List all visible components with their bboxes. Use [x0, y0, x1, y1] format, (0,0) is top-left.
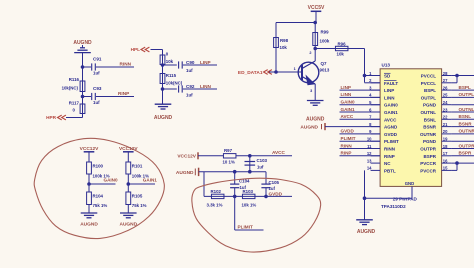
- wire emitter: [314, 84, 316, 100]
- svg-text:13: 13: [367, 158, 372, 163]
- wire: [235, 229, 264, 231]
- node: [248, 170, 252, 174]
- svg-text:BSPR: BSPR: [423, 154, 436, 159]
- wire net GAIN1: [340, 111, 381, 113]
- node: [455, 161, 459, 165]
- node junction2: [81, 95, 85, 99]
- svg-text:NC: NC: [384, 161, 391, 166]
- resistor R115: [160, 74, 165, 84]
- pin 27 PVCCL: [442, 82, 452, 84]
- svg-text:OUTNL: OUTNL: [459, 107, 474, 112]
- wire right: [451, 140, 474, 142]
- wire right: [451, 104, 474, 106]
- pin 12 RINP: [371, 155, 381, 157]
- wire to pin 1: [365, 75, 381, 77]
- pin 4 LINN: [371, 96, 381, 98]
- wire right: [451, 133, 474, 135]
- svg-text:RINP: RINP: [384, 154, 395, 159]
- wire: [127, 174, 129, 192]
- resistor R96 series: [335, 46, 348, 50]
- wire net PLIMIT: [340, 140, 381, 142]
- svg-text:BSNL: BSNL: [424, 117, 437, 122]
- pin 23 OUTNL: [442, 111, 452, 113]
- svg-text:GND: GND: [405, 181, 415, 186]
- svg-text:9013: 9013: [320, 67, 330, 72]
- svg-text:1uf: 1uf: [93, 100, 100, 105]
- svg-text:100k: 100k: [320, 38, 330, 43]
- wire: [314, 23, 316, 49]
- svg-text:AUGND: AUGND: [154, 115, 173, 121]
- wire right: [451, 96, 474, 98]
- wire pin15 to pin16: [451, 169, 457, 171]
- resistor R102: [211, 194, 224, 198]
- wire top rail: [276, 22, 315, 24]
- wire bottom gnd rail: [365, 197, 413, 199]
- svg-text:14: 14: [367, 166, 372, 171]
- svg-text:LINN: LINN: [341, 92, 352, 97]
- wire: [83, 96, 92, 98]
- wire net GAIN1: [128, 183, 155, 185]
- svg-text:PLIMIT: PLIMIT: [384, 139, 399, 144]
- svg-text:10k: 10k: [337, 51, 345, 56]
- svg-text:23: 23: [443, 107, 448, 112]
- node: [248, 154, 252, 158]
- svg-text:1uf: 1uf: [269, 186, 276, 191]
- wire net LINP: [340, 89, 381, 91]
- svg-text:BSPL: BSPL: [459, 85, 471, 90]
- wire: [275, 23, 277, 73]
- pin 7 AVCC: [371, 118, 381, 120]
- pin 6 GAIN1: [371, 111, 381, 113]
- svg-text:BSNR: BSNR: [459, 121, 473, 126]
- svg-text:1uf: 1uf: [93, 70, 100, 75]
- svg-text:AGND: AGND: [384, 125, 398, 130]
- capacitor C104: [234, 172, 236, 185]
- wire to pin 2: [365, 82, 381, 84]
- node to pin1: [363, 74, 367, 78]
- pin 19 PGND: [442, 140, 452, 142]
- svg-text:GAIN1: GAIN1: [384, 110, 398, 115]
- node: [313, 21, 317, 25]
- svg-text:OUTPL: OUTPL: [459, 92, 474, 97]
- node junction1: [81, 65, 85, 69]
- capacitor C92: [178, 85, 180, 92]
- svg-text:10k(NC): 10k(NC): [166, 80, 183, 85]
- ground AUGND: [81, 212, 98, 214]
- pin 24 PGND: [442, 104, 452, 106]
- svg-text:GVDD: GVDD: [341, 129, 355, 134]
- svg-text:10k: 10k: [166, 59, 174, 64]
- svg-text:Q7: Q7: [321, 61, 328, 66]
- svg-text:LINP: LINP: [341, 85, 351, 90]
- wire gnd rail: [199, 171, 266, 173]
- svg-text:26: 26: [443, 85, 448, 90]
- wire net GAIN0: [340, 104, 381, 106]
- svg-text:GAIN1: GAIN1: [143, 177, 157, 182]
- svg-text:1uf: 1uf: [186, 68, 193, 73]
- svg-text:PGND: PGND: [423, 139, 437, 144]
- svg-text:10 1%: 10 1%: [223, 160, 235, 165]
- svg-text:10k(NC): 10k(NC): [62, 85, 79, 90]
- pin 14 PBTL: [371, 169, 381, 171]
- svg-text:PVCCR: PVCCR: [420, 161, 437, 166]
- wire to net RINN: [96, 66, 134, 68]
- node base junction: [274, 70, 278, 74]
- svg-text:PGND: PGND: [423, 103, 437, 108]
- svg-text:R99: R99: [321, 29, 330, 34]
- transistor Q7 9013: [298, 61, 319, 85]
- svg-text:GAIN0: GAIN0: [104, 177, 118, 182]
- wire: [82, 53, 84, 118]
- wire: [127, 205, 129, 214]
- annotation circle left: [34, 138, 164, 238]
- wire net RINN: [340, 148, 381, 150]
- node junction: [161, 63, 165, 67]
- wire net GVDD: [340, 133, 381, 135]
- pin 21 BSNR: [442, 126, 452, 128]
- svg-text:AUGND: AUGND: [176, 170, 194, 176]
- capacitor C90: [178, 61, 180, 68]
- svg-text:RINN: RINN: [120, 62, 132, 67]
- svg-text:3.3k 1%: 3.3k 1%: [207, 203, 223, 208]
- wire right: [451, 155, 474, 157]
- svg-text:OUTNR: OUTNR: [459, 129, 474, 134]
- wire base: [269, 71, 302, 73]
- pin 28 PVCCL: [442, 75, 452, 77]
- svg-text:21: 21: [443, 122, 448, 127]
- resistor R105: [126, 192, 131, 205]
- svg-text:BSNR: BSNR: [423, 125, 437, 130]
- svg-text:BSPR: BSPR: [459, 151, 472, 156]
- svg-text:HPR: HPR: [46, 115, 57, 120]
- svg-text:22: 22: [443, 115, 448, 120]
- svg-text:AVCC: AVCC: [341, 114, 354, 119]
- svg-text:R105: R105: [132, 193, 143, 198]
- svg-text:10k 1%: 10k 1%: [242, 203, 257, 208]
- wire: [315, 48, 364, 50]
- svg-text:AVCC: AVCC: [384, 117, 397, 122]
- svg-text:RINN: RINN: [384, 147, 395, 152]
- ground AUGND (IC): [356, 219, 373, 221]
- svg-text:GAIN0: GAIN0: [384, 103, 398, 108]
- wire right: [451, 148, 474, 150]
- wire AGND: [325, 126, 380, 128]
- svg-text:U13: U13: [382, 62, 391, 67]
- resistor R99: [313, 33, 318, 46]
- svg-text:AUGND: AUGND: [300, 125, 318, 131]
- wire net RINP: [340, 155, 381, 157]
- wire net LINN: [340, 96, 381, 98]
- svg-text:RINN: RINN: [341, 143, 353, 148]
- svg-text:VCC12V: VCC12V: [177, 154, 196, 160]
- svg-text:SD: SD: [384, 74, 391, 79]
- node: [264, 195, 268, 199]
- svg-text:1uf: 1uf: [186, 92, 193, 97]
- svg-text:HPL: HPL: [131, 47, 141, 52]
- annotation circle right: [192, 178, 321, 252]
- pin 11 RINN: [371, 148, 381, 150]
- node: [455, 74, 459, 78]
- resistor R98: [274, 38, 279, 48]
- svg-text:15: 15: [443, 166, 448, 171]
- wire: [249, 156, 251, 172]
- resistor R100: [87, 162, 92, 174]
- svg-text:OUTNL: OUTNL: [421, 110, 437, 115]
- svg-text:C91: C91: [93, 57, 102, 62]
- wire net AVCC: [340, 118, 381, 120]
- wire net AVCC: [236, 155, 292, 157]
- svg-text:PBTL: PBTL: [384, 168, 396, 173]
- svg-text:GVDD: GVDD: [269, 191, 283, 196]
- pin 2 FAULT: [371, 82, 381, 84]
- svg-text:AUGND: AUGND: [357, 229, 376, 235]
- node: [233, 170, 237, 174]
- svg-text:LINN: LINN: [200, 84, 212, 89]
- pin 22 BSNL: [442, 118, 452, 120]
- svg-text:3: 3: [310, 89, 312, 93]
- svg-text:FAULT: FAULT: [384, 81, 398, 86]
- wire net GAIN0: [89, 183, 116, 185]
- svg-text:27: 27: [443, 78, 448, 83]
- pin 26 BSPL: [442, 89, 452, 91]
- svg-text:AUGND: AUGND: [306, 117, 325, 123]
- pin 18 OUTPR: [442, 148, 452, 150]
- wire to net LINP: [183, 64, 217, 66]
- svg-text:PVCCL: PVCCL: [421, 81, 437, 86]
- svg-text:PVCCR: PVCCR: [420, 168, 437, 173]
- svg-text:PVCCL: PVCCL: [421, 74, 437, 79]
- svg-text:1: 1: [294, 67, 296, 71]
- capacitor C91: [91, 63, 93, 70]
- pin 17 BSPR: [442, 155, 452, 157]
- node: [363, 196, 367, 200]
- svg-text:R96: R96: [338, 41, 347, 46]
- wire: [198, 155, 223, 157]
- svg-text:75k 1%: 75k 1%: [93, 203, 108, 208]
- svg-text:25: 25: [443, 93, 448, 98]
- wire PBTL pin14: [364, 170, 366, 198]
- svg-text:RINP: RINP: [118, 91, 129, 96]
- svg-text:AUGND: AUGND: [80, 222, 98, 228]
- svg-text:20: 20: [443, 129, 448, 134]
- ground AUGND (middle block): [155, 103, 172, 105]
- wire right: [451, 118, 474, 120]
- svg-text:OUTPR: OUTPR: [420, 147, 437, 152]
- svg-text:OUTNR: OUTNR: [420, 132, 437, 137]
- wire: [83, 66, 92, 68]
- pin 15 PVCCR: [442, 169, 452, 171]
- wire PwrPAD stub: [411, 186, 413, 198]
- svg-text:C90: C90: [186, 60, 195, 65]
- svg-text:1uf: 1uf: [257, 165, 264, 170]
- svg-text:29 PwrPAD: 29 PwrPAD: [393, 196, 418, 201]
- wire: [162, 50, 164, 105]
- svg-text:19: 19: [443, 137, 448, 142]
- wire: [364, 49, 366, 83]
- svg-text:C105: C105: [269, 180, 280, 185]
- svg-text:BSNL: BSNL: [459, 114, 472, 119]
- pin 1 SD: [371, 75, 381, 77]
- node: [127, 182, 131, 186]
- svg-text:VCC5V: VCC5V: [308, 5, 325, 11]
- wire: [364, 198, 366, 219]
- svg-text:R115: R115: [166, 73, 177, 78]
- pin 16 PVCCR: [442, 162, 452, 164]
- wire to net LINN: [183, 88, 217, 90]
- svg-text:RINP: RINP: [341, 151, 352, 156]
- resistor R117: [80, 104, 85, 114]
- pin 25 OUTPL: [442, 96, 452, 98]
- wire to net RINP: [96, 96, 134, 98]
- svg-text:16: 16: [443, 158, 448, 163]
- svg-text:LINN: LINN: [384, 95, 395, 100]
- wire right: [451, 126, 474, 128]
- svg-text:R101: R101: [132, 163, 143, 168]
- svg-text:OUTPL: OUTPL: [421, 95, 437, 100]
- wire: [163, 88, 177, 90]
- wire: [88, 174, 90, 192]
- svg-text:R97: R97: [224, 148, 233, 153]
- svg-text:LINP: LINP: [384, 88, 394, 93]
- svg-text:C103: C103: [257, 158, 268, 163]
- svg-text:75k 1%: 75k 1%: [132, 203, 147, 208]
- svg-text:10k: 10k: [280, 45, 288, 50]
- svg-text:R116: R116: [69, 77, 80, 82]
- svg-text:PLIMIT: PLIMIT: [238, 225, 253, 230]
- wire collector: [314, 49, 316, 62]
- svg-text:24: 24: [443, 100, 448, 105]
- svg-text:OUTPR: OUTPR: [459, 143, 474, 148]
- pin 5 GAIN0: [371, 104, 381, 106]
- svg-text:18: 18: [443, 144, 448, 149]
- wire right: [451, 162, 474, 164]
- svg-text:GAIN1: GAIN1: [341, 107, 355, 112]
- node: [87, 182, 91, 186]
- wire right: [451, 75, 474, 77]
- wire pin27 to pin28: [451, 82, 457, 84]
- capacitor C105: [265, 172, 267, 185]
- wire net PLIMIT: [234, 196, 236, 230]
- wire: [66, 117, 83, 119]
- node junction: [161, 87, 165, 91]
- node collector junction: [313, 47, 317, 51]
- ground AUGND (emitter): [307, 100, 324, 102]
- svg-text:2: 2: [309, 51, 311, 55]
- svg-text:R104: R104: [93, 193, 104, 198]
- svg-text:GVDD: GVDD: [384, 132, 398, 137]
- resistor R116: [80, 81, 85, 92]
- pin 13 NC: [371, 162, 381, 164]
- op-amp U13 body TPA3110D2: [380, 69, 442, 187]
- svg-text:GAIN0: GAIN0: [341, 100, 355, 105]
- resistor R101: [126, 162, 131, 174]
- pin 9 GVDD: [371, 133, 381, 135]
- svg-text:C93: C93: [93, 86, 102, 91]
- svg-text:BSPL: BSPL: [424, 88, 436, 93]
- wire left drop: [203, 172, 205, 197]
- resistor R103: [242, 194, 255, 198]
- svg-text:28: 28: [443, 71, 448, 76]
- capacitor C103: [245, 161, 256, 163]
- port HPR: [58, 115, 66, 120]
- resistor R97: [223, 154, 236, 158]
- pin 8 AGND: [371, 126, 381, 128]
- wire right: [451, 89, 474, 91]
- resistor R104: [87, 192, 92, 205]
- svg-text:C92: C92: [186, 84, 195, 89]
- svg-text:TPA3110D2: TPA3110D2: [381, 204, 406, 209]
- svg-text:R100: R100: [93, 163, 104, 168]
- svg-text:R102: R102: [211, 189, 222, 194]
- wire: [163, 64, 177, 66]
- pin 20 OUTNR: [442, 133, 452, 135]
- wire bottom row: [204, 195, 292, 197]
- capacitor C93: [91, 93, 93, 100]
- pin 3 LINP: [371, 89, 381, 91]
- ground AUGND: [120, 212, 137, 214]
- svg-text:R117: R117: [69, 100, 80, 105]
- svg-text:AVCC: AVCC: [272, 150, 286, 155]
- svg-text:LINP: LINP: [200, 60, 211, 65]
- svg-text:R98: R98: [280, 38, 289, 43]
- resistor R114 value 0: [160, 55, 165, 65]
- wire right: [451, 111, 474, 113]
- node: [233, 195, 237, 199]
- svg-text:17: 17: [443, 151, 448, 156]
- svg-text:R103: R103: [243, 189, 254, 194]
- pin 10 PLIMIT: [371, 140, 381, 142]
- wire: [88, 205, 90, 214]
- wire: [151, 49, 163, 51]
- svg-text:ED_DATA1: ED_DATA1: [238, 70, 263, 76]
- svg-text:PLIMIT: PLIMIT: [341, 136, 356, 141]
